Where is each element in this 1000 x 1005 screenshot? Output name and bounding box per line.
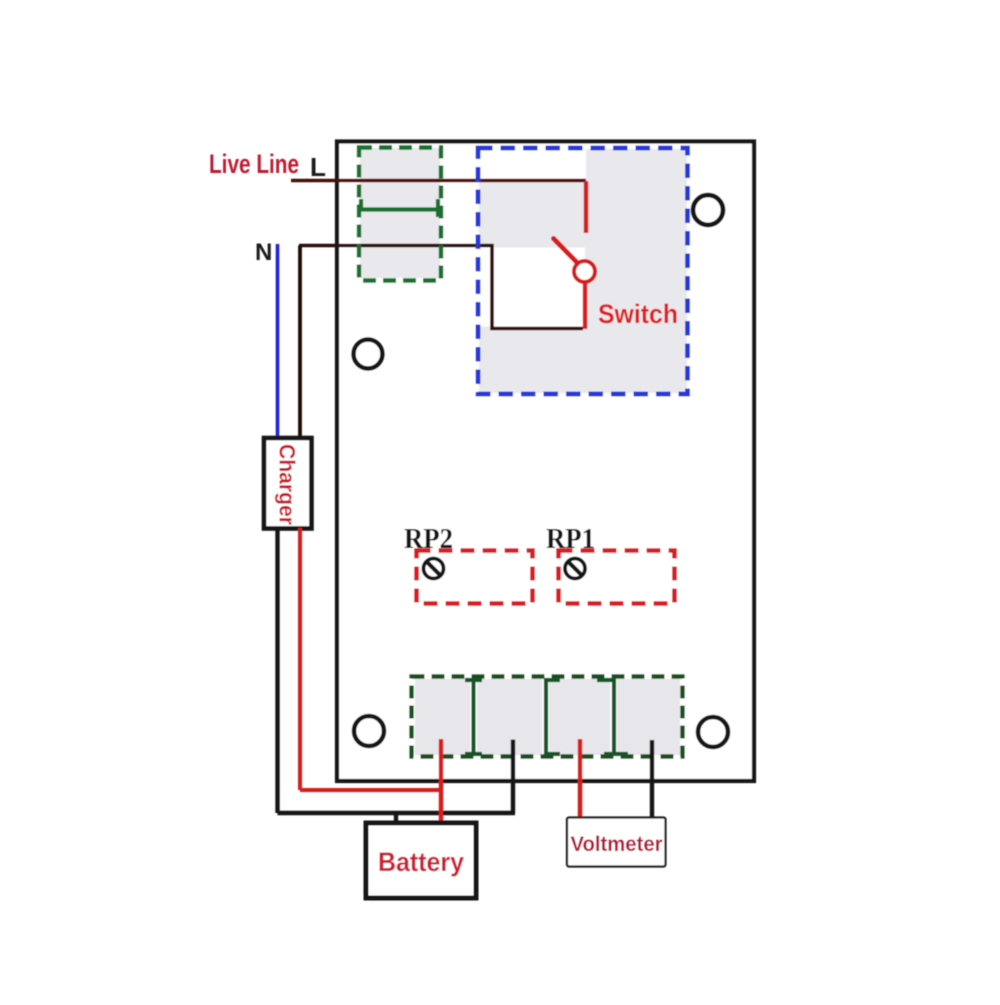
svg-text:Voltmeter: Voltmeter <box>571 832 664 856</box>
svg-text:N: N <box>255 239 272 266</box>
svg-text:Battery: Battery <box>378 847 464 877</box>
svg-text:Charger: Charger <box>275 444 300 525</box>
svg-text:RP1: RP1 <box>546 523 595 555</box>
svg-text:Switch: Switch <box>598 299 678 329</box>
svg-text:Live Line: Live Line <box>209 149 299 179</box>
svg-text:L: L <box>310 152 326 182</box>
svg-text:RP2: RP2 <box>404 523 453 555</box>
